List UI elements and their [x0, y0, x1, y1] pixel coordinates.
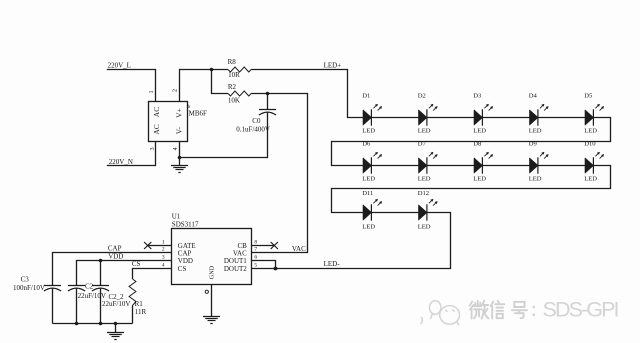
svg-text:SDS3117: SDS3117	[172, 221, 199, 229]
svg-text:220V_L: 220V_L	[108, 62, 131, 70]
svg-text:V-: V-	[175, 126, 184, 134]
svg-text:D9: D9	[529, 141, 538, 148]
svg-text:11R: 11R	[135, 308, 147, 316]
svg-text:CAP: CAP	[178, 249, 192, 257]
svg-text:LED: LED	[362, 127, 375, 134]
svg-text:AC: AC	[152, 107, 161, 117]
svg-text:LED: LED	[473, 175, 486, 182]
svg-text:8: 8	[254, 240, 257, 246]
svg-text:CAP: CAP	[108, 244, 122, 252]
svg-text:D6: D6	[362, 141, 371, 148]
svg-text:VAC: VAC	[233, 249, 247, 257]
svg-text:V+: V+	[175, 108, 184, 118]
svg-text:LED: LED	[473, 127, 486, 134]
svg-text:1: 1	[149, 91, 155, 94]
svg-text:LED: LED	[529, 127, 542, 134]
svg-text:22uF/10V: 22uF/10V	[78, 292, 106, 300]
svg-text:GND: GND	[209, 265, 216, 279]
svg-text:4: 4	[173, 147, 179, 150]
svg-text:LED: LED	[418, 223, 431, 230]
svg-text:D10: D10	[584, 141, 596, 148]
svg-text:DOUT2: DOUT2	[224, 265, 247, 273]
svg-text:LED: LED	[584, 175, 597, 182]
svg-text:5: 5	[254, 263, 257, 269]
svg-text:22uF/10V: 22uF/10V	[102, 300, 130, 308]
svg-text:2: 2	[162, 247, 165, 253]
svg-text:D5: D5	[584, 93, 593, 100]
svg-text:D12: D12	[418, 190, 429, 197]
svg-text:D8: D8	[473, 141, 482, 148]
svg-text:10K: 10K	[228, 96, 240, 104]
svg-text:LED+: LED+	[324, 62, 342, 70]
svg-text:100nF/10V: 100nF/10V	[13, 284, 45, 292]
svg-text:1: 1	[162, 240, 165, 246]
svg-text:10R: 10R	[228, 71, 240, 79]
svg-text:LED: LED	[418, 175, 431, 182]
svg-text:SDS-GPI: SDS-GPI	[543, 298, 618, 322]
svg-text:D4: D4	[529, 93, 538, 100]
svg-text:R8: R8	[228, 58, 237, 66]
svg-text:C3: C3	[21, 275, 30, 283]
svg-text:CS: CS	[132, 260, 141, 268]
svg-text:6: 6	[254, 255, 257, 261]
svg-text:LED: LED	[362, 175, 375, 182]
svg-text:0.1uF/400V: 0.1uF/400V	[236, 126, 270, 134]
svg-text:D1: D1	[362, 93, 370, 100]
svg-text:AC: AC	[152, 124, 161, 134]
svg-text:LED-: LED-	[324, 260, 341, 268]
svg-text:LED: LED	[529, 175, 542, 182]
svg-text:R2: R2	[228, 83, 237, 91]
svg-text:D7: D7	[418, 141, 427, 148]
svg-text:VDD: VDD	[108, 253, 123, 261]
svg-text:220V_N: 220V_N	[109, 158, 133, 166]
svg-text:D11: D11	[362, 190, 373, 197]
svg-text:LED: LED	[584, 127, 597, 134]
svg-text:DOUT1: DOUT1	[224, 257, 247, 265]
svg-text:MB6F: MB6F	[189, 109, 207, 117]
svg-text:3: 3	[162, 255, 165, 261]
svg-text:D3: D3	[473, 93, 482, 100]
svg-text:U1: U1	[172, 212, 181, 220]
svg-text:D2: D2	[418, 93, 426, 100]
svg-text:2: 2	[173, 89, 179, 92]
svg-text:4: 4	[162, 263, 165, 269]
svg-text:CS: CS	[178, 265, 187, 273]
svg-text:VAC: VAC	[292, 245, 306, 253]
svg-text:VDD: VDD	[178, 257, 193, 265]
svg-text:C2: C2	[85, 283, 94, 291]
svg-text:LED: LED	[362, 223, 375, 230]
svg-text:LED: LED	[418, 127, 431, 134]
svg-text:7: 7	[254, 247, 257, 253]
svg-text:C0: C0	[252, 117, 261, 125]
svg-text:R1: R1	[135, 300, 144, 308]
svg-text:3: 3	[150, 147, 156, 150]
